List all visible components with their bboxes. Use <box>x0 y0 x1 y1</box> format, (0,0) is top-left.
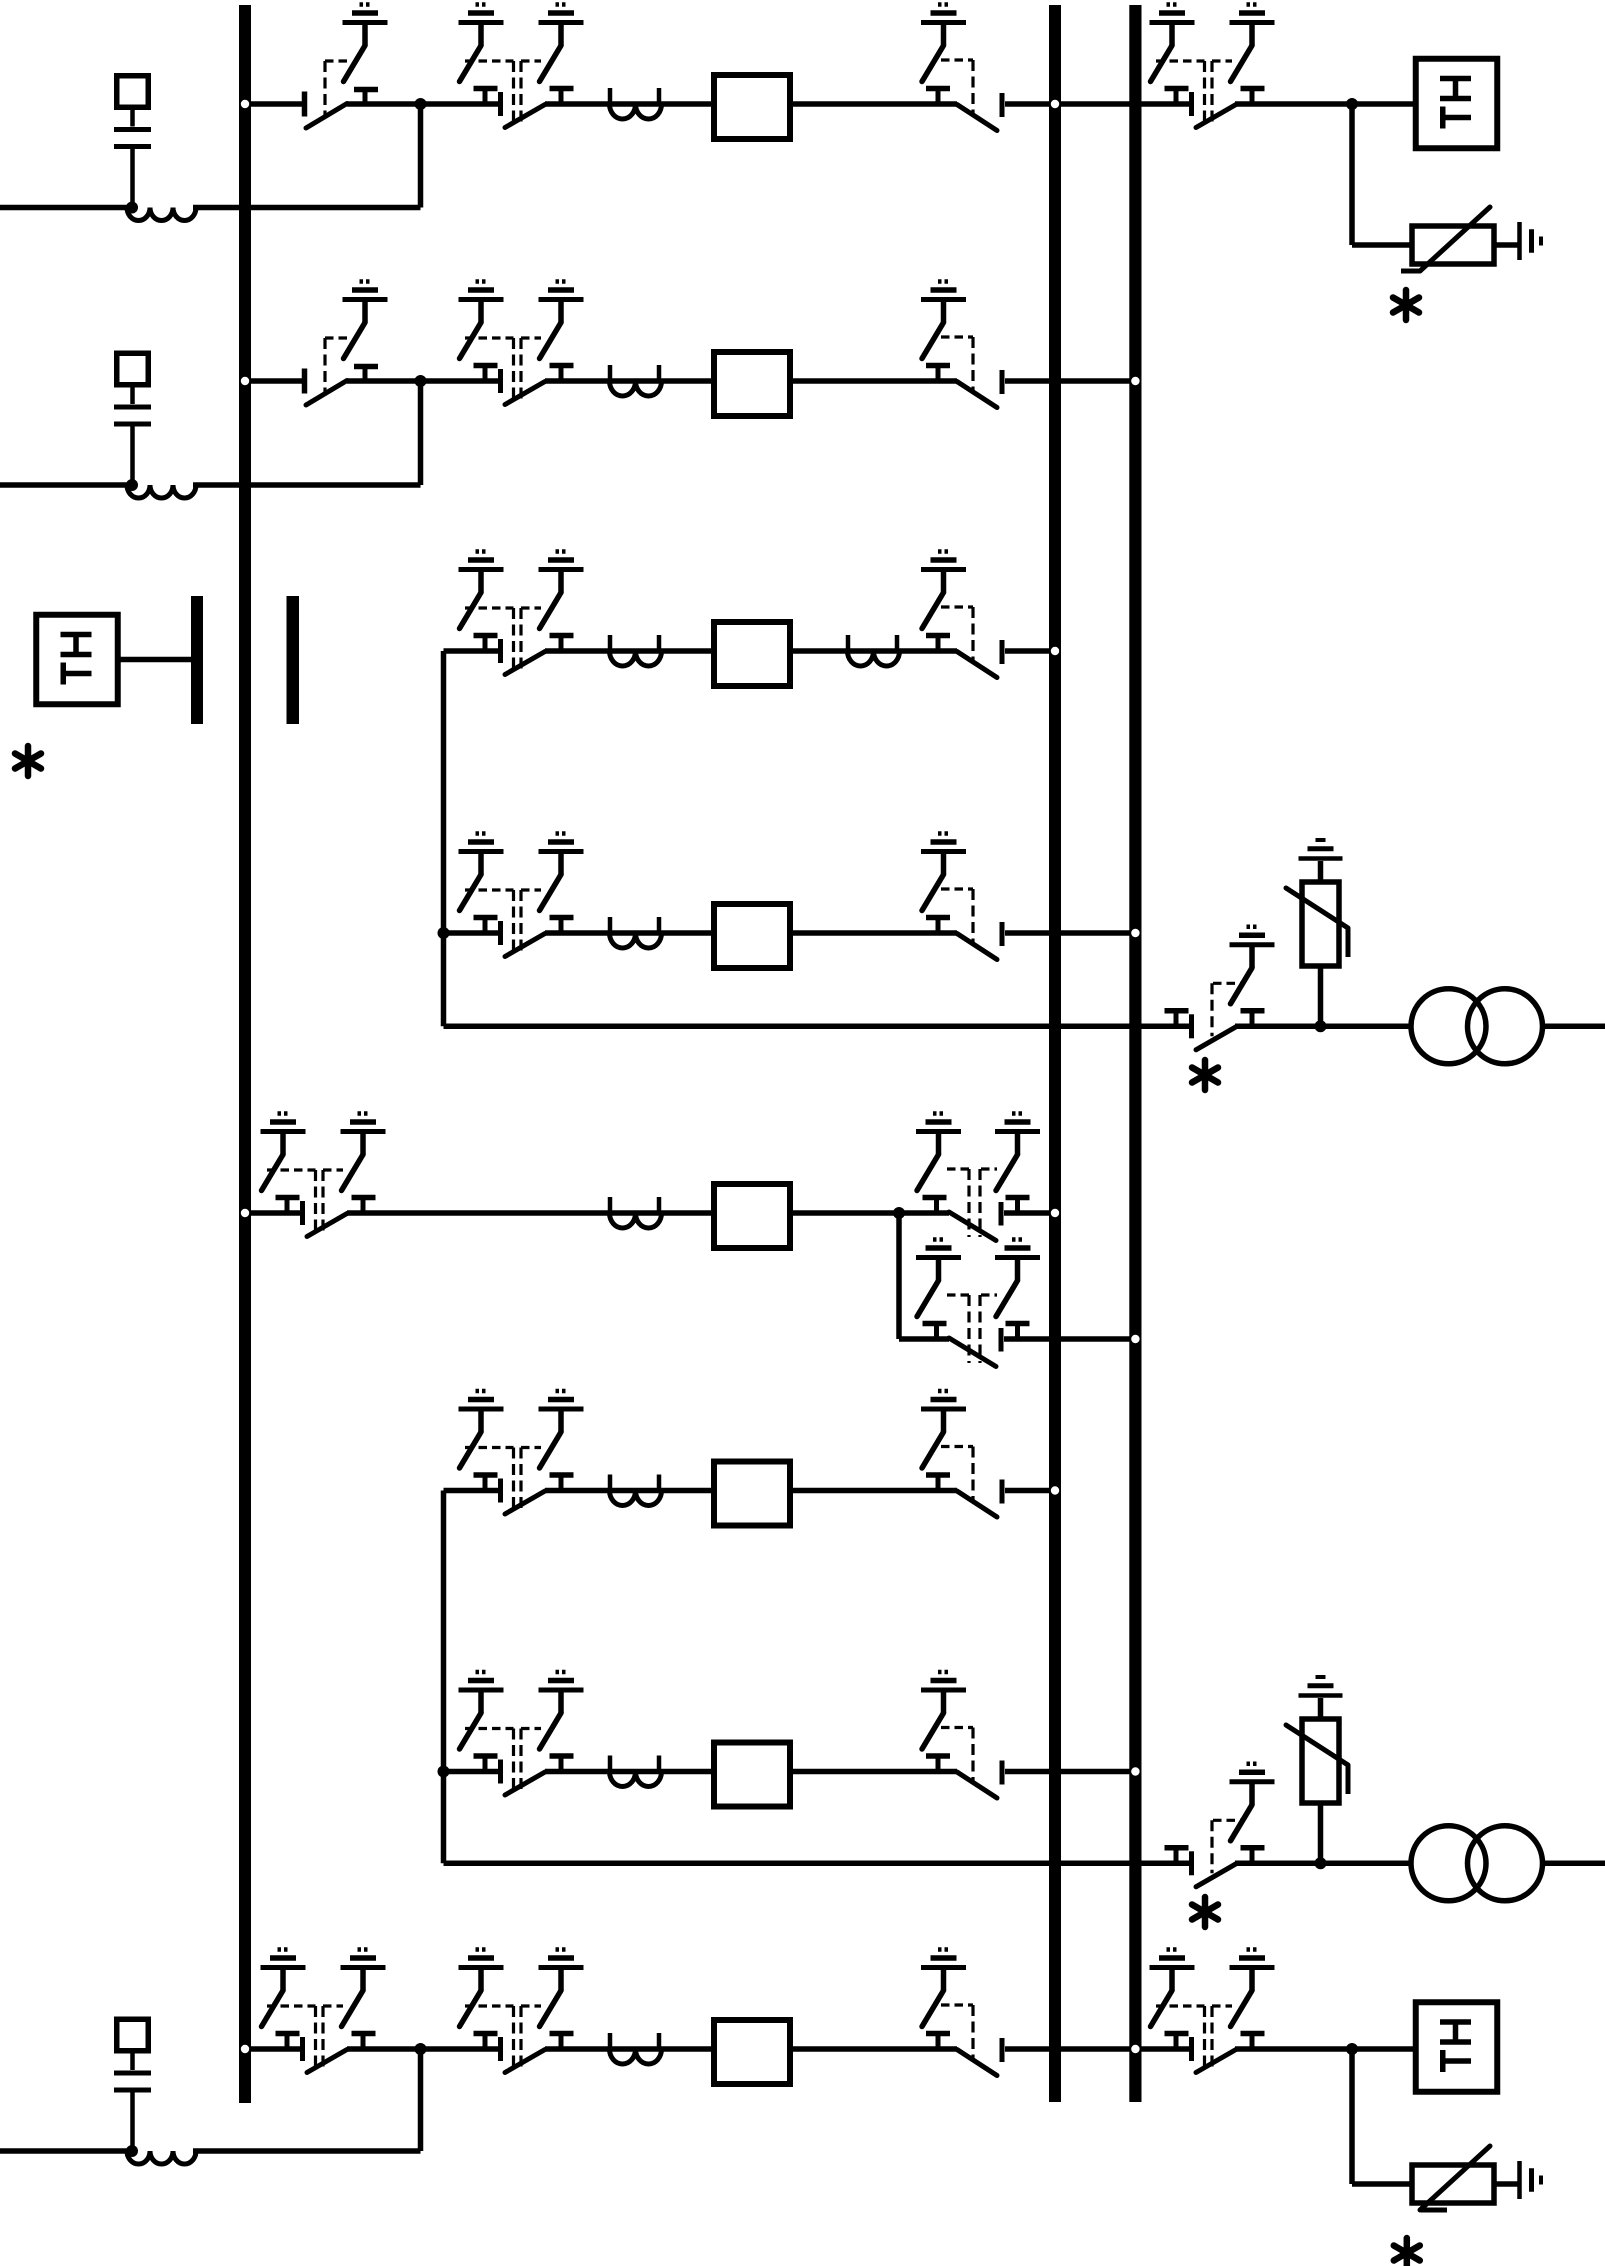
bus section bar b <box>287 596 300 724</box>
junction riser row1 <box>415 98 427 110</box>
earthing switch QS8.2 <box>539 552 584 629</box>
junction FV3 tap <box>1315 1857 1327 1869</box>
line trap / coupling capacitor C1 <box>114 76 151 208</box>
current transformer TA7 <box>610 1756 662 1787</box>
earthing switch QS7.1 <box>921 282 966 359</box>
disconnector QS22 <box>465 2006 574 2073</box>
wire FV2 stem <box>1318 966 1324 1026</box>
junction row7 riser <box>438 1766 450 1778</box>
disconnector QS15 <box>923 1295 1030 1367</box>
power transformer T1 <box>1411 989 1543 1064</box>
surge arrester FV3 <box>1286 1719 1348 1803</box>
riser coupler branch <box>896 1213 902 1339</box>
earthing switch QS4.1 <box>1150 5 1195 82</box>
wire row3 left <box>444 648 503 654</box>
wire FV2 top stem <box>1318 861 1324 882</box>
junction riser row2 <box>415 375 427 387</box>
wire Q6 to QS17 <box>793 1488 957 1494</box>
wire QS24 to TV2 <box>1235 2046 1413 2052</box>
ground FV4 <box>1520 2161 1542 2199</box>
node row4-bus3 <box>1131 929 1139 937</box>
current transformer TA6 <box>610 1475 662 1506</box>
node row8-bus3 <box>1131 2045 1139 2053</box>
wire QS3 to TV1 bay <box>1005 101 1193 107</box>
disconnector QS18 <box>465 1729 574 1796</box>
earthing switch QS6.1 <box>459 282 504 359</box>
earthing switch QS24.2 <box>1230 1950 1275 2027</box>
disconnector QS19 <box>926 1728 1002 1799</box>
earthing switch QS24.1 <box>1150 1950 1195 2027</box>
disconnector QS6 <box>465 338 574 405</box>
earthing switch QS16.1 <box>459 1391 504 1468</box>
wire TV2 branch down <box>1352 2049 1412 2184</box>
earthing switch QS22.2 <box>539 1950 584 2027</box>
wire Q7 to QS19 <box>793 1769 957 1775</box>
current transformer TA3 <box>610 635 662 666</box>
line trap / coupling capacitor C2 <box>114 353 151 485</box>
power transformer T2 <box>1411 1826 1543 1901</box>
asterisk note 1 <box>1393 290 1419 320</box>
wire W2 to riser <box>193 482 421 488</box>
disconnector QS11 <box>926 889 1002 960</box>
junction coupler split <box>893 1207 905 1219</box>
wire T2 bay left <box>444 1861 1194 1867</box>
wire QS13 to Q5 <box>347 1210 711 1216</box>
wire branch to QS15 <box>899 1336 949 1342</box>
earthing switch QS13.1 <box>261 1114 306 1191</box>
earthing switch QS18.1 <box>459 1672 504 1749</box>
node row7-bus3 <box>1131 1767 1139 1775</box>
wire Q2 to QS7 <box>793 378 957 384</box>
earthing switch QS2.2 <box>539 5 584 82</box>
wire FV4 to ground <box>1494 2181 1518 2187</box>
earthing switch QS10.2 <box>539 834 584 911</box>
disconnector QS1 <box>305 61 379 128</box>
surge arrester FV4 <box>1412 2146 1494 2210</box>
wire FV3 stem <box>1318 1803 1324 1863</box>
wire QS1 to QS2 <box>347 101 502 107</box>
disconnector QS14 <box>923 1169 1030 1241</box>
wire QS21 to QS22 <box>347 2046 502 2052</box>
circuit breaker Q1 <box>714 75 790 139</box>
incoming line W2 <box>0 482 127 488</box>
busbar II (second main bus) <box>1049 5 1061 2102</box>
voltage transformer TV1 <box>1416 59 1498 149</box>
wire row4 left <box>444 930 503 936</box>
reactor L1 coil <box>127 208 196 221</box>
wire Q4 to QS11 <box>793 930 957 936</box>
line trap / coupling capacitor C3 <box>114 2019 151 2151</box>
asterisk note T1 <box>1192 1060 1218 1090</box>
earthing switch QS15.1 <box>916 1240 961 1317</box>
earthing switch QS16.2 <box>539 1391 584 1468</box>
current transformer TA4 <box>610 917 662 948</box>
riser W1 <box>418 104 424 208</box>
ground FV3 <box>1299 1677 1343 1696</box>
ground FV2 <box>1299 840 1343 859</box>
wire QS19 to bus3 <box>1005 1769 1142 1775</box>
ground FV1 <box>1520 222 1542 260</box>
wire TV0 to bus section <box>120 657 191 663</box>
earthing switch QS6.2 <box>539 282 584 359</box>
wire QS20 to T2 <box>1235 1861 1409 1867</box>
earthing switch QS1.1 <box>343 5 388 82</box>
earthing switch QS10.1 <box>459 834 504 911</box>
earthing switch QS8.1 <box>459 552 504 629</box>
wire QS16 to Q6 <box>545 1488 711 1494</box>
circuit breaker Q3 <box>714 622 790 686</box>
wire FV3 top stem <box>1318 1698 1324 1719</box>
wire QS6 to Q2 <box>545 378 711 384</box>
earthing switch QS5.1 <box>343 282 388 359</box>
disconnector QS13 <box>267 1170 376 1237</box>
wire W3 to riser <box>193 2148 421 2154</box>
current transformer TA5 <box>610 1197 662 1228</box>
wire QS12 to T1 <box>1235 1024 1409 1030</box>
voltage transformer TV0 <box>36 615 118 705</box>
surge arrester FV1 <box>1401 207 1494 271</box>
earthing switch QS19.1 <box>921 1672 966 1749</box>
junction C1 tap <box>126 202 138 214</box>
wire Q8 to QS23 <box>793 2046 957 2052</box>
earthing switch QS14.2 <box>995 1114 1040 1191</box>
wire QS15 to bus3 <box>1004 1336 1142 1342</box>
wire QS18 to Q7 <box>545 1769 711 1775</box>
wire row6 left <box>444 1488 503 1494</box>
wire TV1 branch down <box>1352 104 1412 245</box>
disconnector QS4 <box>1156 61 1265 128</box>
earthing switch QS20.1 <box>1230 1764 1275 1841</box>
circuit breaker Q7 <box>714 1743 790 1807</box>
disconnector QS2 <box>465 61 574 128</box>
earthing switch QS4.2 <box>1230 5 1275 82</box>
incoming line W1 <box>0 205 127 211</box>
earthing switch QS21.2 <box>341 1950 386 2027</box>
wire T1 out <box>1545 1024 1605 1030</box>
earthing switch QS21.1 <box>261 1950 306 2027</box>
riser W2 <box>418 381 424 485</box>
junction FV2 tap <box>1315 1020 1327 1032</box>
voltage transformer TV2 <box>1416 2002 1498 2092</box>
disconnector QS7 <box>926 337 1002 408</box>
earthing switch QS12.1 <box>1230 927 1275 1004</box>
junction C3 tap <box>126 2145 138 2157</box>
disconnector QS21 <box>267 2006 376 2073</box>
circuit breaker Q8 <box>714 2020 790 2084</box>
earthing switch QS17.1 <box>921 1391 966 1468</box>
earthing switch QS22.1 <box>459 1950 504 2027</box>
wire QS10 to Q4 <box>545 930 711 936</box>
earthing switch QS13.2 <box>341 1114 386 1191</box>
transfer busbar III <box>1129 5 1141 2102</box>
node row5-bus2 <box>1051 1209 1059 1217</box>
asterisk note TV0 <box>15 746 41 776</box>
disconnector QS16 <box>465 1448 574 1515</box>
wire QS5 to QS6 <box>347 378 502 384</box>
disconnector QS9 <box>926 607 1002 678</box>
current transformer TA3b <box>848 635 900 666</box>
wire T2 out <box>1545 1861 1605 1867</box>
disconnector QS23 <box>926 2005 1002 2076</box>
node row8-bus1 <box>241 2045 249 2053</box>
wire QS22 to Q8 <box>545 2046 711 2052</box>
junction TV1 tap <box>1346 98 1358 110</box>
node row1-bus2 <box>1051 100 1059 108</box>
wire QS7 to bus3 <box>1005 378 1142 384</box>
circuit breaker Q5 <box>714 1184 790 1248</box>
current transformer TA2 <box>610 365 662 396</box>
reactor L3 coil <box>127 2151 196 2164</box>
wire Q1 to QS3 <box>793 101 957 107</box>
incoming line W3 <box>0 2148 127 2154</box>
wire Q3 to QS9 <box>793 648 957 654</box>
riser rows3-4 <box>441 651 447 1026</box>
wire bus1 to QS13 <box>239 1210 304 1216</box>
wire T1 bay left <box>444 1024 1194 1030</box>
wire W1 to riser <box>193 205 421 211</box>
junction riser row8 <box>415 2043 427 2055</box>
earthing switch QS11.1 <box>921 834 966 911</box>
current transformer TA8 <box>610 2033 662 2064</box>
node row5-bus1 <box>241 1209 249 1217</box>
disconnector QS5 <box>305 338 379 405</box>
node row3-bus2 <box>1051 647 1059 655</box>
asterisk note TV2 <box>1394 2238 1420 2266</box>
earthing switch QS15.2 <box>995 1240 1040 1317</box>
wire QS17 to bus2 <box>1005 1488 1061 1494</box>
node row1-bus1 <box>241 100 249 108</box>
riser W3 <box>418 2049 424 2151</box>
wire QS2 to Q1 <box>545 101 711 107</box>
riser rows6-7 <box>441 1491 447 1864</box>
disconnector QS12 <box>1165 983 1265 1050</box>
wire bus1 to QS1 <box>239 101 304 107</box>
disconnector QS24 <box>1156 2006 1265 2073</box>
asterisk note T2 <box>1192 1897 1218 1927</box>
junction row4 riser <box>438 927 450 939</box>
node row2-bus1 <box>241 377 249 385</box>
disconnector QS3 <box>926 60 1002 131</box>
wire QS14 to bus2 <box>1004 1210 1061 1216</box>
wire bus1 to QS21 <box>239 2046 304 2052</box>
busbar I (first main bus) <box>239 5 251 2103</box>
wire QS23 to TV2 bay <box>1005 2046 1193 2052</box>
node branch-bus3 <box>1131 1335 1139 1343</box>
wire bus1 to QS5 <box>239 378 304 384</box>
wire QS9 to bus2 <box>1005 648 1061 654</box>
circuit breaker Q4 <box>714 904 790 968</box>
wire QS11 to bus3 <box>1005 930 1142 936</box>
reactor L2 coil <box>127 485 196 498</box>
disconnector QS10 <box>465 890 574 957</box>
disconnector QS17 <box>926 1447 1002 1518</box>
earthing switch QS23.1 <box>921 1950 966 2027</box>
earthing switch QS18.2 <box>539 1672 584 1749</box>
circuit breaker Q2 <box>714 352 790 416</box>
node row2-bus3 <box>1131 377 1139 385</box>
wire QS8 to Q3 <box>545 648 711 654</box>
earthing switch QS9.1 <box>921 552 966 629</box>
disconnector QS8 <box>465 608 574 675</box>
junction C2 tap <box>126 479 138 491</box>
node row6-bus2 <box>1051 1486 1059 1494</box>
earthing switch QS3.1 <box>921 5 966 82</box>
current transformer TA1 <box>610 88 662 119</box>
wire Q5 to QS14 <box>793 1210 949 1216</box>
earthing switch QS14.1 <box>916 1114 961 1191</box>
bus section bar a <box>191 596 203 724</box>
junction TV2 tap <box>1346 2043 1358 2055</box>
wire row7 left <box>444 1769 503 1775</box>
wire FV1 to ground <box>1494 242 1518 248</box>
disconnector QS20 <box>1165 1820 1265 1887</box>
wire QS4 to TV1 <box>1235 101 1413 107</box>
earthing switch QS2.1 <box>459 5 504 82</box>
surge arrester FV2 <box>1286 882 1348 966</box>
circuit breaker Q6 <box>714 1462 790 1526</box>
